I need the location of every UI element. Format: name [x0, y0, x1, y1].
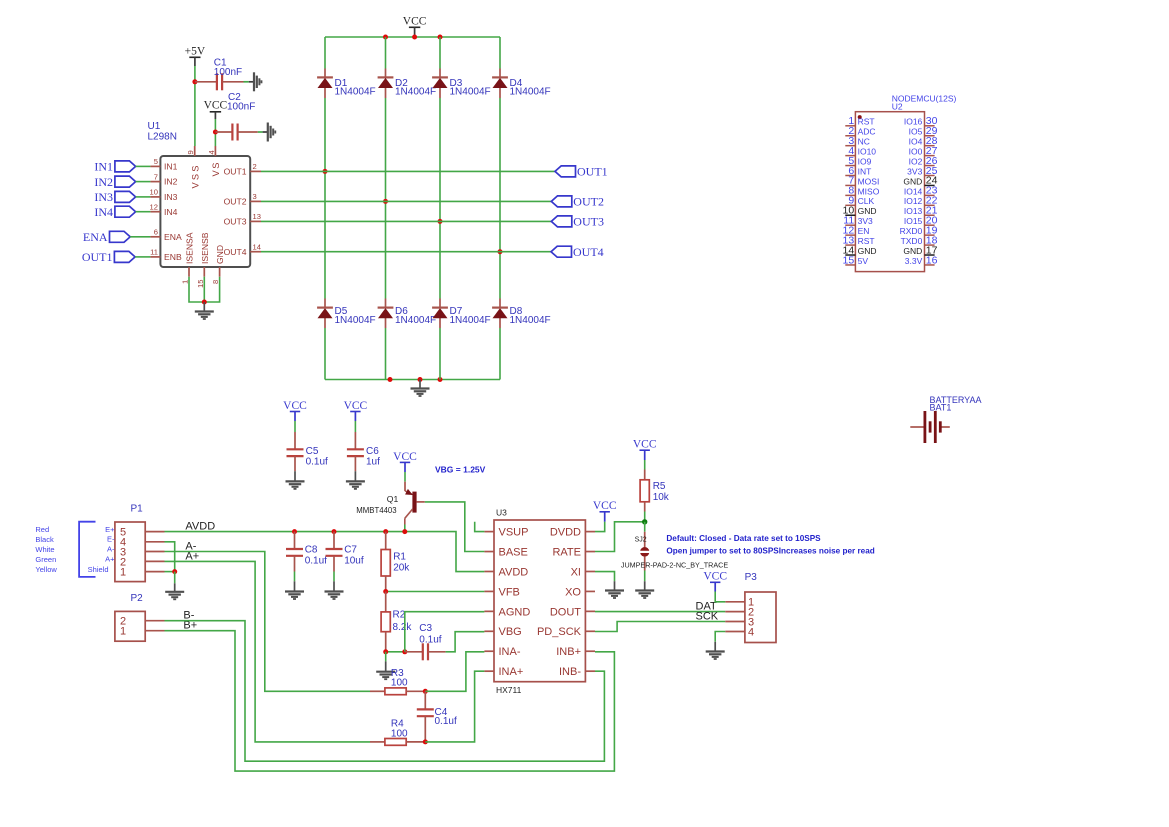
svg-text:IN1: IN1: [94, 160, 113, 174]
svg-text:TXD0: TXD0: [901, 236, 923, 246]
wire column D1/D5 x=325: [324, 37, 326, 69]
ground under SJ2: [635, 589, 654, 591]
U2 pin 29 IO5: [925, 135, 935, 137]
wire net A- from P1 pin3 to R3: [165, 552, 371, 692]
U1 pin 15 ISENSB (bottom): [203, 267, 205, 277]
node OUT2 junction on column: [383, 199, 388, 204]
capacitor C1 100nF: [195, 81, 217, 83]
svg-text:4: 4: [207, 150, 216, 154]
svg-text:R1: R1: [393, 552, 406, 563]
svg-text:VSS: VSS: [190, 163, 200, 188]
U1 pin 7 IN2: [150, 181, 160, 183]
U2 pin 4 IO10: [845, 155, 855, 157]
U3 pin INA+: [484, 670, 494, 672]
wire P1 pin1 to ground: [165, 571, 175, 573]
U1 pin 1 ISENSA (bottom): [188, 267, 190, 277]
resistor R4 100: [370, 741, 385, 743]
svg-text:OUT2: OUT2: [224, 197, 247, 207]
svg-text:0.1uf: 0.1uf: [435, 716, 457, 727]
svg-text:4: 4: [748, 626, 754, 638]
svg-text:VCC: VCC: [204, 100, 228, 112]
svg-text:0.1uf: 0.1uf: [305, 556, 327, 567]
capacitor C4 0.1uf: [424, 691, 426, 709]
ground at XI: [605, 589, 624, 591]
svg-text:3.3V: 3.3V: [905, 256, 923, 266]
svg-text:SJ2: SJ2: [635, 536, 647, 543]
resistor R2 8.2k: [385, 592, 387, 612]
IC U1 L298N body: [160, 156, 250, 267]
U2 pin 13 RST: [845, 244, 855, 246]
svg-text:OUT1: OUT1: [224, 167, 247, 177]
U3 pin BASE: [484, 551, 494, 553]
svg-text:10uf: 10uf: [344, 556, 364, 567]
svg-text:100: 100: [391, 677, 408, 688]
svg-text:OUT2: OUT2: [573, 195, 604, 209]
svg-text:P1: P1: [131, 504, 144, 515]
svg-text:ENB: ENB: [164, 252, 182, 262]
svg-text:Default: Closed - Data rate se: Default: Closed - Data rate set to 10SPS: [666, 534, 821, 543]
svg-text:12: 12: [150, 203, 158, 212]
svg-text:SCK: SCK: [696, 611, 719, 623]
svg-text:RST: RST: [858, 117, 875, 127]
U2 pin 17 GND: [925, 254, 935, 256]
wire C3 to U3 VBG: [446, 632, 485, 652]
svg-text:U2: U2: [892, 102, 903, 112]
wire net +5V vertical to U1 VSS pin 9: [194, 66, 196, 146]
U3 pin VSUP: [484, 531, 494, 533]
wire IN4 to U1: [136, 211, 151, 213]
U2 pin 10 GND: [845, 214, 855, 216]
svg-text:0.1uf: 0.1uf: [419, 634, 441, 645]
U1 pin 3 OUT2: [250, 200, 261, 202]
ground (rotated) at C2: [267, 123, 269, 142]
wire R4 out to U3 INA+: [425, 671, 484, 742]
P3 pin 4: [725, 631, 745, 633]
U3 pin XI: [585, 570, 595, 572]
U3 pin VBG: [484, 630, 494, 632]
svg-text:A+: A+: [105, 555, 115, 564]
wire P1 pin4 to shield/ground: [165, 542, 175, 572]
svg-text:7: 7: [154, 172, 158, 181]
svg-text:HX711: HX711: [496, 685, 522, 695]
wire net DAT (DOUT to P3 pin2): [595, 611, 725, 613]
svg-text:1N4004F: 1N4004F: [510, 315, 551, 326]
U1 pin 10 IN3: [150, 196, 160, 198]
wire column D4/D8 x=500: [499, 37, 501, 69]
svg-text:100nF: 100nF: [214, 67, 242, 78]
connector P1 body: [115, 522, 145, 582]
transistor Q1 MMBT4403 (PNP): [404, 482, 406, 491]
svg-text:U3: U3: [496, 508, 507, 518]
wire net AVDD from P1 pin5 to U3 AVDD: [165, 532, 485, 572]
U1 pin 8 GND (bottom): [219, 267, 221, 277]
svg-text:A-: A-: [107, 544, 115, 553]
net flag IN2: [115, 176, 136, 187]
U2 pin 11 3V3: [845, 224, 855, 226]
svg-text:C8: C8: [305, 545, 318, 556]
capacitor C2 100nF: [215, 131, 232, 133]
diode D2 1N4004F: [378, 76, 394, 78]
capacitor C8 0.1uf: [294, 532, 296, 549]
node +5V/C1 junction: [192, 79, 197, 84]
wire IN3 to U1: [136, 196, 151, 198]
svg-text:VCC: VCC: [703, 571, 727, 583]
svg-text:VCC: VCC: [344, 400, 368, 412]
wire XI to ground: [595, 572, 615, 582]
wire stub to U3 VSUP: [475, 522, 485, 532]
U2 pin 5 IO9: [845, 165, 855, 167]
resistor R1 20k: [385, 532, 387, 550]
node OUT4 junction on column: [498, 249, 503, 254]
wire U1 bottom pins to ground: [189, 277, 220, 302]
svg-text:1N4004F: 1N4004F: [335, 87, 376, 98]
U2 pin 23 IO14: [925, 194, 935, 196]
svg-text:IN3: IN3: [94, 190, 113, 204]
ground under C7: [325, 590, 344, 592]
ground under C6: [346, 480, 365, 482]
svg-text:CLK: CLK: [858, 196, 875, 206]
svg-text:9: 9: [186, 150, 195, 154]
U2 pin 27 IO0: [925, 155, 935, 157]
svg-text:AGND: AGND: [499, 606, 531, 618]
svg-text:C6: C6: [366, 446, 379, 457]
U1 pin 14 OUT4: [250, 251, 261, 253]
svg-text:ENA: ENA: [83, 230, 108, 244]
svg-text:Red: Red: [35, 525, 49, 534]
diode D3 1N4004F: [432, 76, 448, 78]
jumper SJ2 JUMPER-PAD-2-NC_BY_TRACE: [644, 522, 646, 532]
U1 pin 11 ENB: [150, 256, 160, 258]
svg-text:IO13: IO13: [904, 206, 923, 216]
svg-text:XO: XO: [565, 586, 581, 598]
svg-text:100: 100: [391, 729, 408, 740]
node R2/C3 junction: [383, 649, 388, 654]
svg-text:1: 1: [120, 626, 126, 638]
svg-text:IO12: IO12: [904, 196, 923, 206]
svg-text:RST: RST: [858, 236, 875, 246]
svg-text:ADC: ADC: [858, 127, 876, 137]
U2 pin 21 IO13: [925, 214, 935, 216]
node bottom rail junctions: [388, 377, 393, 382]
wire Q1 collector to AVDD net: [404, 518, 406, 524]
P1 pin 2: [145, 560, 164, 562]
wire VCC to C6: [354, 421, 356, 432]
svg-text:1N4004F: 1N4004F: [335, 315, 376, 326]
U3 pin DOUT: [585, 610, 595, 612]
svg-text:GND: GND: [215, 245, 225, 264]
wire net A+ from P1 pin2 to R4: [165, 561, 371, 742]
U2 pin 20 IO15: [925, 224, 935, 226]
svg-text:16: 16: [926, 254, 938, 266]
U3 pin XO: [585, 590, 595, 592]
P3 pin 3: [725, 621, 745, 623]
svg-text:INA-: INA-: [499, 646, 521, 658]
net flag OUT3: [551, 216, 572, 227]
svg-text:P3: P3: [745, 572, 758, 583]
svg-text:E+: E+: [105, 525, 115, 534]
svg-text:ENA: ENA: [164, 232, 182, 242]
wire R3 out to U3 INA-: [425, 652, 484, 692]
node AGND junction: [402, 649, 407, 654]
node VFB junction: [383, 589, 388, 594]
U2 pin 15 5V: [845, 264, 855, 266]
svg-text:1uf: 1uf: [366, 456, 380, 467]
wire net VFB: [386, 591, 485, 593]
P1 pin 3: [145, 551, 164, 553]
svg-text:2: 2: [253, 162, 257, 171]
connector U2 NODEMCU(12S) body: [855, 112, 924, 272]
svg-text:OUT1: OUT1: [82, 250, 113, 264]
svg-text:DVDD: DVDD: [550, 527, 581, 539]
svg-text:IN1: IN1: [164, 162, 178, 172]
U2 pin 25 3V3: [925, 175, 935, 177]
svg-text:VSUP: VSUP: [499, 527, 529, 539]
U3 pin INB-: [585, 670, 595, 672]
net flag ENA: [110, 231, 131, 242]
svg-text:MOSI: MOSI: [858, 176, 880, 186]
P2 pin 1: [145, 630, 164, 632]
svg-text:VCC: VCC: [403, 16, 427, 28]
svg-text:5: 5: [154, 157, 158, 166]
net flag OUT2: [551, 196, 572, 207]
svg-text:IO4: IO4: [909, 137, 923, 147]
U2 pin 8 MISO: [845, 194, 855, 196]
U2 pin 1 RST: [845, 125, 855, 127]
svg-text:VBG = 1.25V: VBG = 1.25V: [435, 464, 486, 474]
svg-text:U1: U1: [148, 121, 161, 132]
connector P3 body: [745, 592, 776, 643]
wire RATE to R5/SJ2 node: [595, 522, 645, 552]
svg-text:1N4004F: 1N4004F: [450, 315, 491, 326]
net flag IN4: [115, 206, 136, 217]
P1 pin 1: [145, 571, 164, 573]
wire VCC to C5: [294, 421, 296, 432]
wire net SCK (PD_SCK to P3 pin3): [595, 622, 725, 632]
svg-text:R2: R2: [393, 610, 406, 621]
svg-text:INT: INT: [858, 166, 872, 176]
svg-text:100nF: 100nF: [227, 101, 255, 112]
node R4/C4 junction: [423, 739, 428, 744]
ground (rotated) at C1: [253, 72, 255, 91]
wire net AGND from U3: [405, 612, 485, 652]
U2 pin-1 mark: [858, 115, 862, 119]
net flag OUT1: [555, 166, 576, 177]
U2 pin 18 TXD0: [925, 244, 935, 246]
U2 pin 26 IO2: [925, 165, 935, 167]
svg-text:C3: C3: [419, 623, 432, 634]
svg-text:3: 3: [253, 192, 257, 201]
wire P3 pin4 to ground: [715, 632, 725, 642]
svg-text:OUT3: OUT3: [224, 217, 247, 227]
P3 pin 2: [725, 611, 745, 613]
svg-text:EN: EN: [858, 226, 870, 236]
svg-text:1N4004F: 1N4004F: [450, 87, 491, 98]
diode D7 1N4004F: [432, 307, 448, 309]
capacitor C7 10uf: [333, 532, 335, 549]
svg-text:13: 13: [253, 212, 261, 221]
svg-text:INB+: INB+: [556, 646, 581, 658]
svg-text:IN2: IN2: [164, 177, 178, 187]
P2 pin 2: [145, 620, 164, 622]
diode D1 1N4004F: [317, 76, 333, 78]
U3 pin INA-: [484, 650, 494, 652]
wire VCC to Q1 emitter: [404, 472, 406, 482]
svg-text:11: 11: [150, 248, 158, 257]
svg-text:0.1uf: 0.1uf: [306, 456, 328, 467]
U3 pin RATE: [585, 551, 595, 553]
wire DVDD to VCC: [595, 522, 605, 532]
wire bottom rail: [325, 379, 500, 381]
U2 pin 2 ADC: [845, 135, 855, 137]
svg-text:IO16: IO16: [904, 117, 923, 127]
U3 pin INB+: [585, 650, 595, 652]
svg-text:MMBT4403: MMBT4403: [356, 506, 396, 515]
svg-text:5V: 5V: [858, 256, 869, 266]
ground under U1: [195, 310, 214, 312]
svg-text:IO0: IO0: [909, 147, 923, 157]
node RATE/R5/SJ2 junction (green): [642, 519, 647, 524]
U2 pin 22 IO12: [925, 204, 935, 206]
svg-text:INA+: INA+: [499, 666, 524, 678]
svg-text:IN3: IN3: [164, 192, 178, 202]
node VCC/C2 junction: [213, 130, 218, 135]
U1 pin 9 VSS (top): [194, 146, 196, 156]
svg-text:1N4004F: 1N4004F: [395, 315, 436, 326]
svg-text:OUT3: OUT3: [573, 215, 604, 229]
svg-text:GND: GND: [903, 176, 922, 186]
ground under C5: [286, 480, 305, 482]
U2 pin 7 MOSI: [845, 184, 855, 186]
svg-text:IO2: IO2: [909, 156, 923, 166]
svg-text:Green: Green: [35, 555, 56, 564]
diode D6 1N4004F: [378, 307, 394, 309]
wire column D3/D7 x=440: [439, 37, 441, 69]
capacitor C6 1uf: [354, 432, 356, 449]
svg-text:VS: VS: [211, 161, 221, 176]
node U1 ground junction: [202, 300, 207, 305]
svg-text:IN2: IN2: [94, 175, 113, 189]
svg-text:VCC: VCC: [283, 400, 307, 412]
ground at P1: [165, 591, 184, 593]
svg-text:IN4: IN4: [164, 207, 178, 217]
diode D4 1N4004F: [492, 76, 508, 78]
wire IN2 to U1: [136, 181, 151, 183]
U2 pin 14 GND: [845, 254, 855, 256]
svg-text:IO14: IO14: [904, 186, 923, 196]
svg-text:MISO: MISO: [858, 186, 880, 196]
node OUT1 junction on column: [323, 169, 328, 174]
wire net OUT2: [261, 200, 551, 202]
wire VCC to U1 VS pin 4: [214, 119, 216, 146]
svg-text:ISENSB: ISENSB: [200, 232, 210, 264]
svg-text:C5: C5: [306, 446, 319, 457]
U2 pin 6 INT: [845, 175, 855, 177]
U3 pin PD_SCK: [585, 630, 595, 632]
wire VCC top rail: [325, 36, 500, 38]
svg-text:GND: GND: [903, 246, 922, 256]
svg-text:Q1: Q1: [387, 494, 399, 504]
P3 pin 1: [725, 601, 745, 603]
net flag OUT4: [551, 246, 572, 257]
U2 pin 12 EN: [845, 234, 855, 236]
wire net OUT1: [261, 170, 555, 172]
svg-text:Black: Black: [35, 535, 54, 544]
ground at P3: [706, 650, 725, 652]
svg-text:8.2k: 8.2k: [393, 622, 413, 633]
svg-text:AVDD: AVDD: [499, 566, 529, 578]
svg-text:VFB: VFB: [499, 586, 520, 598]
wire ENA to U1: [130, 236, 150, 238]
svg-text:JUMPER-PAD-2-NC_BY_TRACE: JUMPER-PAD-2-NC_BY_TRACE: [621, 560, 729, 569]
capacitor C3 0.1uf: [405, 651, 423, 653]
U3 pin VFB: [484, 590, 494, 592]
svg-text:1N4004F: 1N4004F: [395, 87, 436, 98]
diode D8 1N4004F: [492, 307, 508, 309]
svg-text:10k: 10k: [653, 492, 670, 503]
svg-text:GND: GND: [858, 246, 877, 256]
wire net B- from P2 pin2 to U3 INB-: [165, 621, 605, 762]
svg-text:15: 15: [843, 254, 855, 266]
U1 pin 4 VS (top): [214, 146, 216, 156]
svg-text:OUT1: OUT1: [577, 165, 608, 179]
svg-text:VCC: VCC: [633, 439, 657, 451]
bracket for P1 wires: [79, 522, 95, 577]
U1 pin 13 OUT3: [250, 220, 261, 222]
svg-text:10: 10: [150, 188, 158, 197]
svg-text:White: White: [35, 545, 54, 554]
node R3/C4 junction: [423, 689, 428, 694]
svg-text:3V3: 3V3: [907, 166, 922, 176]
U2 pin 30 IO16: [925, 125, 935, 127]
svg-text:GND: GND: [858, 206, 877, 216]
U1 pin 5 IN1: [150, 165, 160, 167]
node top rail junctions: [383, 35, 388, 40]
resistor R5 10k: [644, 460, 646, 470]
svg-text:IN4: IN4: [94, 205, 113, 219]
wire net OUT4: [261, 251, 551, 253]
svg-text:NC: NC: [858, 137, 870, 147]
U1 pin 2 OUT1: [250, 170, 261, 172]
svg-text:E-: E-: [107, 535, 115, 544]
svg-text:RXD0: RXD0: [900, 226, 923, 236]
svg-text:VCC: VCC: [593, 500, 617, 512]
svg-text:IO9: IO9: [858, 156, 872, 166]
wire to U1 ENB: [135, 256, 150, 258]
U2 pin 3 NC: [845, 145, 855, 147]
U3 pin AVDD: [484, 570, 494, 572]
node P1 ground junction: [172, 569, 177, 574]
svg-text:VBG: VBG: [499, 626, 522, 638]
U3 pin AGND: [484, 610, 494, 612]
svg-text:Shield: Shield: [88, 565, 109, 574]
wire IN1 to U1: [136, 165, 151, 167]
wire net OUT3: [261, 220, 551, 222]
svg-text:L298N: L298N: [148, 132, 177, 143]
U2 pin 16 3.3V: [925, 264, 935, 266]
ground under bridge: [419, 380, 421, 389]
resistor R3 100: [370, 690, 385, 692]
wire net B+ from P2 pin1 to U3 INB+: [165, 631, 615, 771]
U1 pin 6 ENA: [150, 236, 160, 238]
svg-text:AVDD: AVDD: [185, 520, 215, 532]
svg-text:6: 6: [154, 228, 158, 237]
svg-text:1: 1: [120, 567, 126, 579]
node AVDD junctions: [292, 529, 297, 534]
svg-text:RATE: RATE: [552, 546, 581, 558]
svg-text:OUT4: OUT4: [224, 247, 247, 257]
diode D5 1N4004F: [317, 307, 333, 309]
U2 pin 19 RXD0: [925, 234, 935, 236]
